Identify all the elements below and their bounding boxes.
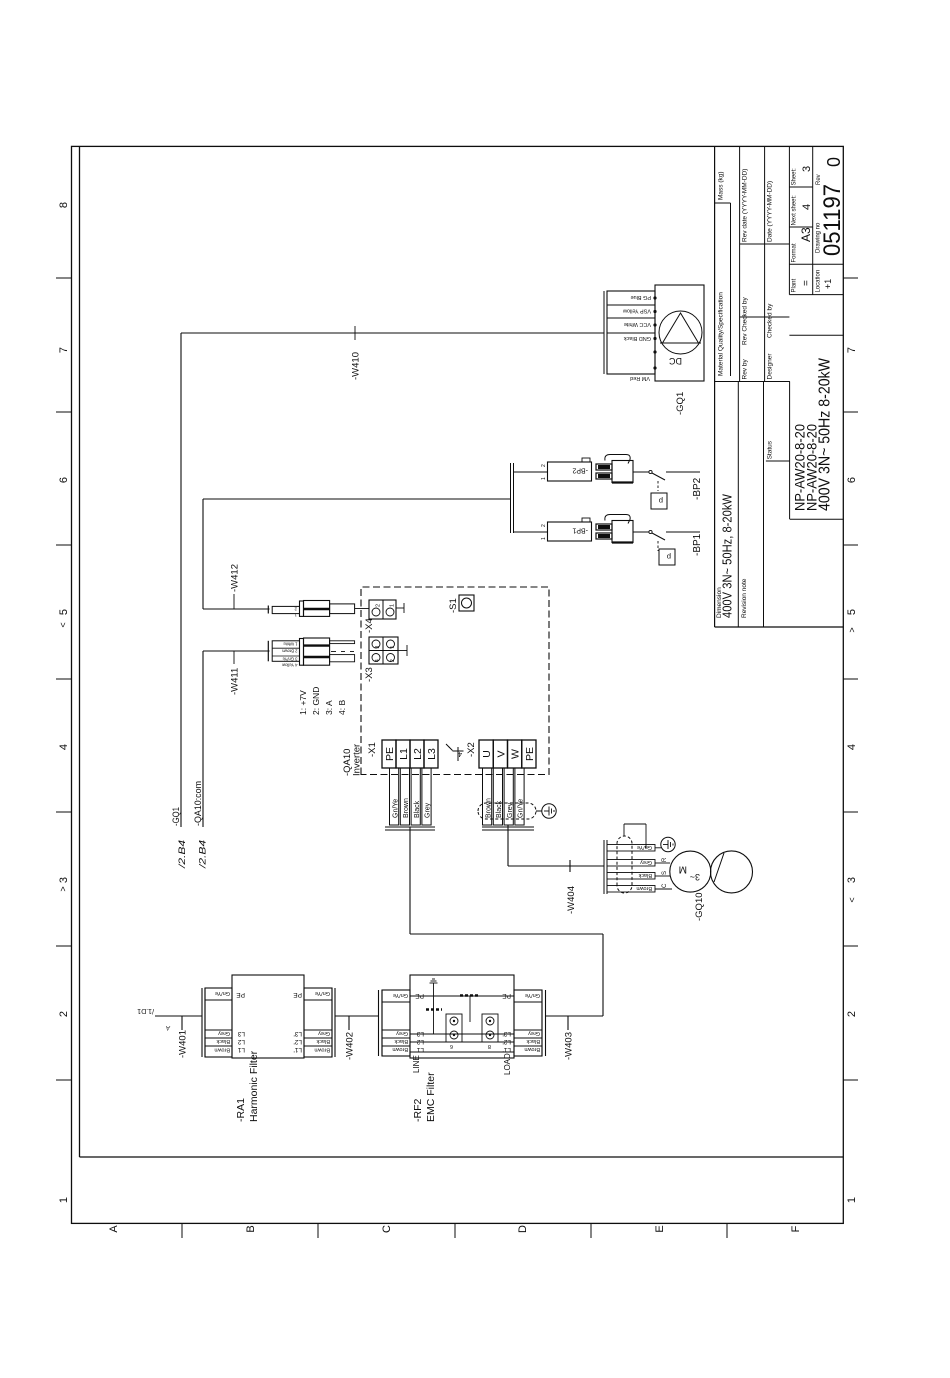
svg-text:4 Yellow: 4 Yellow bbox=[281, 663, 297, 668]
svg-text:A3: A3 bbox=[799, 227, 813, 242]
svg-text:/2.B4: /2.B4 bbox=[198, 840, 209, 869]
svg-text:W: W bbox=[510, 749, 522, 759]
pressure switch -BP1 wire from bus bbox=[514, 531, 548, 533]
BP2 actuator dashed link bbox=[657, 481, 659, 491]
svg-text:Brown: Brown bbox=[403, 798, 410, 818]
X1 supply cable cores bbox=[390, 768, 399, 825]
svg-text:-BP2: -BP2 bbox=[692, 477, 703, 500]
svg-text:Rev date (YYYY-MM-DD): Rev date (YYYY-MM-DD) bbox=[742, 169, 749, 242]
wire -W411 from X3 connector to off-page bbox=[203, 650, 270, 652]
RF2 capacitor bank 1 bbox=[426, 1008, 442, 1011]
-BP1 mating housing bbox=[612, 521, 633, 543]
svg-text:-W402: -W402 bbox=[345, 1032, 356, 1060]
svg-text:Format: Format bbox=[792, 243, 798, 262]
svg-text:Brown: Brown bbox=[214, 1047, 230, 1053]
svg-text:B: B bbox=[245, 1225, 257, 1232]
svg-text:E: E bbox=[654, 1225, 666, 1232]
Gn/Ye core to earth wire bbox=[655, 847, 661, 849]
zone letters left edge bbox=[181, 1223, 183, 1238]
svg-text:2 Brown: 2 Brown bbox=[281, 649, 297, 654]
wire -W410 fan supply from off-page bbox=[180, 333, 182, 827]
BP1 pressure element box bbox=[659, 549, 675, 565]
svg-text:2: 2 bbox=[541, 464, 547, 467]
svg-text:2: 2 bbox=[58, 1011, 70, 1017]
svg-text:3: 3 bbox=[801, 166, 813, 172]
svg-text:-X1: -X1 bbox=[367, 742, 378, 757]
svg-text:C: C bbox=[381, 1225, 393, 1233]
svg-text:L3': L3' bbox=[294, 1030, 302, 1037]
svg-text:1: 1 bbox=[846, 1197, 858, 1203]
svg-text:4: B: 4: B bbox=[337, 700, 347, 715]
X2 shield earth connection bbox=[536, 810, 542, 812]
RA1 bottom terminal strip bbox=[304, 988, 332, 1057]
svg-text:4: 4 bbox=[58, 744, 70, 750]
svg-text:p: p bbox=[659, 497, 663, 506]
RF2 internal phase wires bbox=[410, 1051, 514, 1053]
-BP2 switch contact bbox=[649, 470, 652, 473]
svg-text:-X2: -X2 bbox=[466, 742, 477, 757]
cable label -W411 bbox=[233, 651, 235, 664]
fan unit box bbox=[655, 285, 704, 381]
svg-text:Location: Location bbox=[816, 270, 822, 293]
svg-text:PE: PE bbox=[524, 747, 536, 761]
BP1 actuator dashed link bbox=[657, 541, 659, 551]
svg-text:1: 1 bbox=[390, 646, 396, 649]
-BP2 latch hook bbox=[605, 455, 630, 464]
svg-text:-S1: -S1 bbox=[448, 598, 459, 613]
RF2 top cable bus bbox=[378, 990, 380, 1056]
svg-text:V: V bbox=[495, 750, 507, 757]
svg-text:DC: DC bbox=[669, 356, 682, 366]
svg-text:3~: 3~ bbox=[690, 872, 700, 882]
X2 motor cable cores bbox=[483, 768, 492, 825]
svg-text:2: 2 bbox=[376, 604, 382, 607]
svg-text:Material Quality/Specification: Material Quality/Specification bbox=[718, 292, 725, 376]
svg-text:400V 3N~ 50Hz, 8-20kW: 400V 3N~ 50Hz, 8-20kW bbox=[721, 494, 735, 618]
compressor motor wires to circle bbox=[655, 888, 672, 890]
svg-text:Gn/Ye: Gn/Ye bbox=[393, 992, 408, 998]
X3 stub terminal bbox=[398, 650, 407, 652]
svg-text:GND Black: GND Black bbox=[624, 335, 651, 341]
svg-text:<: < bbox=[847, 897, 857, 902]
cable -W403 RF2 to inverter X1 bbox=[546, 1015, 604, 1017]
svg-text:VSP Yellow: VSP Yellow bbox=[623, 308, 651, 314]
svg-text:Black: Black bbox=[316, 1038, 330, 1044]
svg-text:2: GND: 2: GND bbox=[311, 687, 321, 715]
fan impeller symbol bbox=[659, 311, 702, 354]
svg-text:8: 8 bbox=[488, 1043, 491, 1049]
svg-text:Grey: Grey bbox=[507, 802, 514, 818]
cable -W404 X2 to compressor bbox=[507, 825, 509, 866]
svg-text:PG Blue: PG Blue bbox=[631, 294, 651, 300]
svg-text:Grey: Grey bbox=[218, 1030, 230, 1036]
svg-text:-GQ10: -GQ10 bbox=[694, 892, 705, 921]
svg-text:Sheet:: Sheet: bbox=[792, 168, 798, 186]
svg-text:L1': L1' bbox=[294, 1046, 302, 1053]
svg-text:/2.B4: /2.B4 bbox=[177, 840, 188, 869]
X2 shield earth symbol bbox=[542, 804, 556, 818]
svg-text:2: 2 bbox=[846, 1011, 858, 1017]
svg-text:-QA10:com: -QA10:com bbox=[193, 781, 204, 826]
-BP1 connector housing bbox=[548, 522, 592, 541]
-BP2 crimp contacts bbox=[596, 473, 612, 479]
svg-text:+1: +1 bbox=[823, 279, 833, 289]
svg-text:LINE: LINE bbox=[412, 1055, 421, 1073]
X1 cable bundle bus bbox=[385, 829, 435, 831]
switch S1 box bbox=[459, 595, 474, 611]
wire incoming supply to RA1 bbox=[155, 1015, 202, 1017]
svg-text:051197: 051197 bbox=[819, 184, 846, 256]
X4 stub terminal bbox=[396, 607, 404, 609]
svg-text:1: +7V: 1: +7V bbox=[298, 690, 308, 715]
svg-text:Brown: Brown bbox=[524, 1046, 540, 1052]
zone scale bottom edge bbox=[843, 1079, 858, 1081]
svg-text:Date (YYYY-MM-DD): Date (YYYY-MM-DD) bbox=[767, 181, 774, 242]
svg-text:7: 7 bbox=[846, 347, 858, 353]
RA1 bottom cable bus bbox=[331, 988, 333, 1057]
wire -W412 from X4 connector to pressure switch bus bbox=[203, 608, 270, 610]
svg-text:3: 3 bbox=[58, 877, 70, 883]
svg-text:A: A bbox=[108, 1225, 120, 1233]
RF2 bottom cable bus bbox=[541, 990, 543, 1056]
svg-text:3: 3 bbox=[846, 877, 858, 883]
svg-text:C: C bbox=[662, 883, 668, 888]
svg-text:Black: Black bbox=[526, 1038, 540, 1044]
svg-text:-BP2: -BP2 bbox=[572, 467, 588, 474]
svg-text:VM Red: VM Red bbox=[630, 375, 650, 381]
svg-text:1: 1 bbox=[541, 477, 547, 480]
svg-text:1: 1 bbox=[390, 604, 396, 607]
RF2 main box bbox=[410, 975, 514, 1058]
svg-text:Designer: Designer bbox=[767, 353, 774, 380]
fan cable bus bbox=[603, 291, 605, 374]
svg-text:Harmonic Filter: Harmonic Filter bbox=[248, 1050, 260, 1122]
svg-text:Gn/Ye: Gn/Ye bbox=[525, 992, 540, 998]
connector X3 sockets 2x2 bbox=[369, 637, 398, 664]
svg-text:4: 4 bbox=[801, 204, 813, 210]
terminal block X2 U V W PE bbox=[479, 740, 493, 768]
-BP2 wire to switch bbox=[633, 471, 649, 473]
svg-text:Gn/Ye: Gn/Ye bbox=[215, 990, 230, 996]
svg-text:=: = bbox=[801, 280, 812, 286]
compressor cable bus bbox=[603, 840, 605, 894]
-BP1 crimp contacts bbox=[596, 533, 612, 539]
svg-text:-W403: -W403 bbox=[564, 1032, 575, 1060]
svg-text:-GQ1: -GQ1 bbox=[171, 807, 182, 826]
compressor scroll circle bbox=[711, 851, 753, 893]
svg-text:2: 2 bbox=[390, 659, 396, 662]
svg-text:EMC Filter: EMC Filter bbox=[425, 1072, 437, 1122]
svg-text:-BP1: -BP1 bbox=[692, 533, 703, 556]
svg-text:L2: L2 bbox=[412, 748, 424, 760]
svg-text:Grey: Grey bbox=[528, 1030, 540, 1036]
svg-text:S: S bbox=[662, 871, 668, 875]
inline connector upper (to X4) bbox=[267, 606, 269, 614]
svg-text:U: U bbox=[481, 750, 493, 758]
svg-text:5: 5 bbox=[846, 609, 858, 615]
svg-text:-W410: -W410 bbox=[351, 352, 362, 380]
svg-text:L2': L2' bbox=[294, 1038, 302, 1045]
svg-text:8: 8 bbox=[58, 202, 70, 208]
svg-text:1: 1 bbox=[58, 1197, 70, 1203]
cable -W402 RA1 to RF2 bbox=[335, 1015, 379, 1017]
connector X4 sockets bbox=[369, 600, 396, 619]
-BP2 connector housing bbox=[548, 462, 592, 481]
compressor earth symbol bbox=[661, 837, 675, 851]
svg-text:VCC White: VCC White bbox=[624, 321, 651, 327]
-BP1 wire to switch bbox=[633, 531, 649, 533]
svg-text:-GQ1: -GQ1 bbox=[675, 392, 686, 415]
svg-text:PE: PE bbox=[384, 747, 396, 761]
svg-text:Gn/Ye: Gn/Ye bbox=[518, 799, 525, 818]
svg-text:L1: L1 bbox=[237, 1046, 245, 1053]
svg-text:3: 3 bbox=[375, 646, 381, 649]
svg-text:-X4: -X4 bbox=[364, 618, 375, 633]
svg-text:Black: Black bbox=[394, 1038, 408, 1044]
inline connector lower (to X3) with wire list bbox=[267, 641, 269, 662]
zone scale top edge bbox=[56, 1079, 72, 1081]
RF2 choke windings row 1 bbox=[446, 1014, 462, 1042]
svg-text:PE: PE bbox=[293, 991, 302, 998]
svg-text:-W412: -W412 bbox=[230, 564, 241, 592]
X2 cable shield ellipse bbox=[478, 803, 536, 819]
RF2 choke windings row 2 bbox=[482, 1014, 498, 1042]
svg-text:A: A bbox=[166, 1024, 171, 1030]
svg-text:4: 4 bbox=[458, 750, 462, 757]
svg-text:L2: L2 bbox=[237, 1038, 245, 1045]
svg-text:Grey: Grey bbox=[318, 1030, 330, 1036]
cable label -W412 bbox=[233, 594, 235, 609]
svg-text:Grey: Grey bbox=[640, 859, 652, 865]
svg-text:3 Gn/Ye: 3 Gn/Ye bbox=[282, 656, 298, 661]
svg-text:Grey: Grey bbox=[396, 1030, 408, 1036]
svg-text:400V 3N~ 50Hz 8-20kW: 400V 3N~ 50Hz 8-20kW bbox=[817, 357, 834, 511]
terminal block X1 PE L1 L2 L3 bbox=[382, 740, 396, 768]
svg-text:Status: Status bbox=[767, 440, 774, 459]
RF2 top terminal strip bbox=[382, 990, 410, 1056]
svg-text:PE: PE bbox=[236, 991, 245, 998]
compressor motor circle M 3~ bbox=[670, 851, 711, 892]
pressure switch -BP2 wire from bus bbox=[514, 471, 548, 473]
svg-text:Brown: Brown bbox=[485, 798, 492, 818]
svg-text:D: D bbox=[517, 1225, 529, 1233]
svg-text:6: 6 bbox=[450, 1043, 453, 1049]
compressor cable cores bbox=[607, 886, 655, 893]
svg-text:Black: Black bbox=[638, 872, 652, 878]
svg-text:Gn/Ye: Gn/Ye bbox=[392, 799, 399, 818]
svg-text:L1: L1 bbox=[398, 748, 410, 760]
core count marker 4 bbox=[457, 747, 459, 761]
svg-text:-W404: -W404 bbox=[566, 886, 577, 914]
drawing frame outer border bbox=[72, 146, 844, 1223]
-BP1 latch hook bbox=[605, 515, 630, 524]
svg-text:L3: L3 bbox=[237, 1030, 245, 1037]
-BP2 mating housing bbox=[612, 461, 633, 483]
-BP1 switch contact bbox=[649, 530, 652, 533]
svg-text:7: 7 bbox=[58, 347, 70, 353]
svg-text:5: 5 bbox=[58, 609, 70, 615]
svg-text:-RF2: -RF2 bbox=[412, 1099, 424, 1122]
svg-text:Rev by: Rev by bbox=[742, 359, 749, 380]
svg-text:-W401: -W401 bbox=[178, 1030, 189, 1058]
svg-text:Black: Black bbox=[414, 800, 421, 818]
svg-text:p: p bbox=[667, 553, 671, 562]
RA1 top terminal strip bbox=[205, 988, 232, 1057]
BP2 pressure element box bbox=[651, 493, 667, 509]
svg-text:F: F bbox=[790, 1225, 802, 1232]
svg-text:-RA1: -RA1 bbox=[235, 1098, 247, 1122]
svg-text:-X3: -X3 bbox=[364, 667, 375, 682]
RF2 bottom terminal strip bbox=[514, 990, 542, 1056]
svg-text:M: M bbox=[679, 864, 687, 875]
fan terminal strip bbox=[607, 291, 655, 374]
svg-text:/1.D1: /1.D1 bbox=[137, 1007, 154, 1014]
svg-text:6: 6 bbox=[58, 477, 70, 483]
svg-text:6: 6 bbox=[846, 477, 858, 483]
svg-text:R: R bbox=[662, 857, 668, 862]
svg-text:>: > bbox=[847, 627, 857, 632]
svg-text:1: 1 bbox=[541, 537, 547, 540]
svg-text:Next sheet:: Next sheet: bbox=[792, 195, 798, 226]
svg-text:-W411: -W411 bbox=[230, 668, 241, 695]
svg-text:>: > bbox=[58, 886, 68, 891]
cable label -W410 bbox=[354, 326, 356, 340]
svg-text:2: 2 bbox=[294, 607, 297, 612]
title block frame bbox=[714, 146, 716, 627]
svg-text:Gn/Ye: Gn/Ye bbox=[315, 990, 330, 996]
svg-text:Rev Checked by: Rev Checked by bbox=[742, 297, 749, 345]
svg-text:Checked by: Checked by bbox=[767, 303, 774, 338]
svg-text:4: 4 bbox=[375, 659, 381, 662]
RF2 internal earth symbol bbox=[433, 983, 435, 989]
RF2 capacitor bank 2 bbox=[460, 994, 480, 997]
svg-text:-BP1: -BP1 bbox=[572, 527, 588, 534]
drawing frame inner border lines bbox=[79, 146, 81, 1157]
X2 cable bundle bus bbox=[482, 829, 534, 831]
svg-text:Plant: Plant bbox=[792, 278, 798, 292]
fan terminal dots bbox=[653, 366, 656, 369]
svg-text:L3: L3 bbox=[426, 748, 438, 760]
svg-text:1 White: 1 White bbox=[283, 641, 298, 646]
svg-text:Brown: Brown bbox=[636, 885, 652, 891]
RA1 main box bbox=[232, 975, 304, 1058]
cable label -W401 bbox=[181, 1016, 183, 1030]
svg-text:4: 4 bbox=[846, 744, 858, 750]
compressor cable shield ellipse bbox=[617, 836, 632, 893]
svg-text:Gn/Ye: Gn/Ye bbox=[637, 844, 652, 850]
svg-text:Grey: Grey bbox=[425, 802, 432, 818]
svg-text:Mass (kg): Mass (kg) bbox=[718, 171, 725, 200]
harmonic filter RA1 top cable bus bbox=[201, 988, 203, 1057]
inverter QA10 enclosure dashed outline bbox=[361, 587, 549, 775]
pressure switch cable bus bbox=[510, 463, 512, 533]
svg-text:Brown: Brown bbox=[392, 1046, 408, 1052]
svg-text:3: A: 3: A bbox=[324, 700, 334, 715]
svg-text:Inverter: Inverter bbox=[352, 744, 363, 776]
svg-text:LOAD: LOAD bbox=[503, 1053, 512, 1075]
svg-text:0: 0 bbox=[824, 157, 844, 167]
svg-text:<: < bbox=[58, 622, 68, 627]
svg-text:2: 2 bbox=[541, 524, 547, 527]
svg-text:Rev: Rev bbox=[816, 174, 822, 185]
svg-text:Black: Black bbox=[216, 1038, 230, 1044]
compressor shield drain loop bbox=[623, 824, 625, 836]
svg-text:Revision note: Revision note bbox=[741, 578, 748, 618]
svg-text:Brown: Brown bbox=[314, 1047, 330, 1053]
